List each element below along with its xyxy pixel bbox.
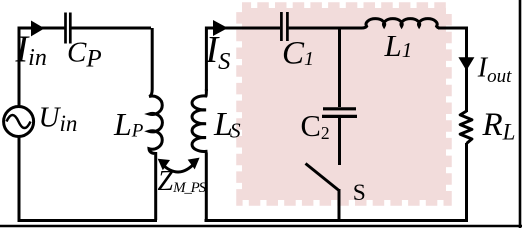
wire: branch down to C2 [338,28,341,107]
wire: C1 to L1 with junction [289,27,362,30]
switch S blade [306,164,340,191]
svg-text:S: S [353,180,366,206]
mutual impedance arrow Z_M_PS [162,163,196,173]
AC source U_in [4,107,34,137]
capacitor C_P [66,13,71,44]
capacitor C2 [322,109,357,117]
capacitor C1 [281,12,287,41]
wire: secondary top-left corner to C1 [206,28,280,91]
svg-text:IS: IS [205,29,231,75]
svg-text:Iout: Iout [477,53,512,88]
frame: right border [519,0,522,228]
svg-text:Iin: Iin [15,29,47,72]
wire: primary left vertical lower + bottom wire [18,137,158,221]
resistor R_L [460,111,472,143]
inductor L_S (secondary coil, 4 bumps left) [192,89,206,220]
wire: primary top-left (top wire left segment + left vertical upper) [19,28,66,106]
inductor L1 (4 bumps up) [362,19,440,28]
wire: C_P to L_P top [70,27,151,30]
frame: bottom border [0,225,522,227]
wire: C2 to switch [338,118,341,165]
current arrow I_in [31,21,45,37]
inductor L_P (primary coil, 3 bumps right) [149,28,162,220]
svg-text:CP: CP [67,37,102,73]
wire: L1 to right side top corner [438,28,467,112]
compensation network enclosure (pink dashed box) [242,8,446,200]
wire: R_L to bottom [465,143,468,220]
current arrow I_S [213,20,228,36]
current arrow I_out [458,57,474,70]
svg-text:RL: RL [482,107,516,145]
svg-text:LP: LP [113,106,144,142]
svg-text:Uin: Uin [39,102,78,136]
wire: secondary bottom [205,219,469,222]
wire: switch to bottom [338,189,341,220]
